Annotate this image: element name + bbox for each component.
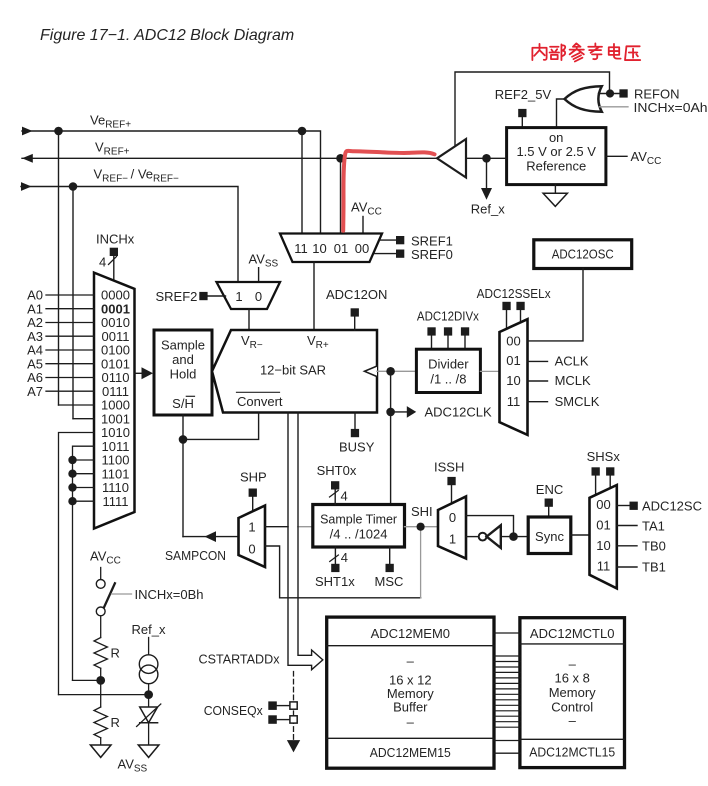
svg-text:0: 0 (449, 510, 456, 525)
wire A6 (46, 377, 94, 379)
svg-text:Sample Timer: Sample Timer (320, 511, 398, 526)
svg-text:1011: 1011 (102, 439, 130, 454)
svg-text:/4 .. /1024: /4 .. /1024 (330, 526, 388, 541)
wire SSELx stubs (507, 310, 521, 329)
diode cathode bar (140, 722, 158, 724)
svg-text:01: 01 (506, 353, 520, 368)
wire Ref_x to current source (148, 638, 150, 655)
svg-text:SREF0: SREF0 (411, 247, 453, 262)
svg-text:1111: 1111 (102, 494, 128, 509)
divider line ADC12MCTL15 (520, 738, 625, 740)
wire SAMPCON horizontal (183, 536, 239, 538)
node SHI (417, 523, 425, 531)
svg-text:12−bit SAR: 12−bit SAR (260, 363, 326, 378)
wire temp sensor to row 1010 (59, 433, 95, 695)
wire ENC stub (548, 507, 550, 517)
wire ADC12ON to SAR (354, 317, 356, 330)
wire ADC12CLK vertical to sample timer (390, 371, 392, 504)
wire INCHx bus to input mux (113, 256, 115, 281)
mux input channel select (94, 273, 135, 529)
switch contact top (96, 580, 105, 589)
svg-text:Buffer: Buffer (393, 699, 428, 714)
block 16x8 memory control (520, 618, 625, 768)
wire REFON input (599, 93, 620, 95)
svg-text:0: 0 (255, 289, 262, 304)
arrow VeREF+ input (22, 127, 33, 136)
svg-text:ADC12SSELx: ADC12SSELx (477, 286, 551, 301)
terminal square ADC12DIVx bit2 (461, 327, 469, 335)
svg-text:0: 0 (248, 542, 255, 557)
svg-text:ADC12MCTL15: ADC12MCTL15 (529, 745, 615, 760)
svg-text:INCHx: INCHx (96, 231, 135, 246)
wire SREF0 (375, 253, 397, 255)
bus slash SHT1x 4 (330, 555, 339, 562)
wire ISSH input 1 to inverter (466, 536, 479, 538)
svg-text:01: 01 (334, 241, 348, 256)
wire mem-mctl link row15b (494, 752, 520, 754)
wire MCLK input (528, 380, 548, 382)
wire switch to resistor R upper (100, 616, 102, 638)
wire row 1111 (73, 500, 95, 502)
resistor R upper (94, 638, 107, 669)
svg-text:ADC12CLK: ADC12CLK (425, 405, 493, 420)
arrow VREF- input (21, 182, 32, 191)
svg-text:ADC12MEM15: ADC12MEM15 (370, 745, 451, 760)
svg-text:10: 10 (312, 241, 326, 256)
mux SREF2 (217, 282, 281, 309)
wire SHT0x stub (334, 490, 336, 505)
svg-text:16 x 8: 16 x 8 (554, 670, 589, 685)
svg-text:4: 4 (99, 255, 106, 270)
terminal square SHSx bit0 (592, 467, 600, 475)
red annotation text 内部参考电压 (532, 43, 640, 61)
svg-text:SHP: SHP (240, 469, 267, 484)
wire SMCLK input (528, 401, 548, 403)
svg-text:ACLK: ACLK (555, 353, 589, 368)
terminal square ADC12ON (351, 308, 359, 316)
wire ACLK input (528, 360, 548, 362)
terminal square ADC12DIVx bit1 (444, 327, 452, 335)
svg-text:ENC: ENC (536, 482, 563, 497)
block Sample and Hold (154, 330, 212, 415)
inverter bubble (479, 533, 487, 541)
svg-text:11: 11 (294, 241, 308, 256)
inverter U4 (487, 525, 501, 548)
wire SREF1 (379, 239, 396, 241)
wire TB0 input (617, 545, 637, 547)
terminal square SHSx bit1 (606, 467, 614, 475)
terminal square REFON (619, 89, 627, 97)
current source circle lower (139, 665, 158, 684)
wire ADC12CLK output (391, 411, 407, 413)
wire Ref_x down (486, 158, 488, 188)
arrow dashed pointer (287, 740, 300, 752)
node SAMPCON branch (179, 435, 188, 444)
svg-text:SAMPCON: SAMPCON (165, 548, 226, 563)
terminal square ISSH (447, 477, 455, 485)
svg-text:MSC: MSC (375, 574, 404, 589)
svg-text:TB1: TB1 (642, 559, 666, 574)
wire A2 (46, 322, 94, 324)
wire SHT1x stub (334, 547, 336, 564)
svg-text:Sample: Sample (161, 338, 205, 353)
svg-text:1.5 V or 2.5 V: 1.5 V or 2.5 V (516, 144, 596, 159)
overbar on H of S/H (186, 395, 194, 397)
wire MSC stub (389, 547, 391, 564)
diode temp sensor (140, 707, 158, 723)
wire VeREF+ to row 1000 (59, 404, 95, 406)
node temp sensor (144, 690, 153, 699)
svg-text:R: R (111, 646, 120, 661)
node divider mid (96, 676, 105, 685)
block 16x12 memory buffer (327, 617, 494, 768)
svg-text:–: – (569, 713, 577, 728)
node row 1111 (68, 497, 76, 505)
svg-text:/1 .. /8: /1 .. /8 (430, 371, 466, 386)
wire divider node to row 1011 (73, 446, 95, 680)
node VREF-/x73 (69, 182, 78, 191)
block ADC12OSC (534, 240, 632, 269)
node row 1110 (68, 483, 76, 491)
svg-text:A5: A5 (27, 356, 43, 371)
wire current source to temp node (148, 684, 150, 707)
bus slash INCHx 4 (109, 257, 117, 265)
char 参 (570, 43, 584, 61)
svg-text:11: 11 (507, 394, 521, 409)
terminal square CONSEQx bit1 (268, 715, 277, 724)
divider line ADC12MEM0 (327, 645, 494, 647)
block 12-bit SAR (212, 330, 377, 413)
wire buffer enable from OR gate top (455, 72, 610, 146)
wire TB1 input (617, 566, 637, 568)
wire INCHx=0Ah input (grey) (600, 106, 629, 108)
svg-text:1: 1 (235, 289, 242, 304)
svg-text:A3: A3 (27, 329, 43, 344)
buffer amp U3 (points left) (437, 139, 466, 178)
svg-text:MCLK: MCLK (555, 373, 591, 388)
terminal square SHT0x (331, 481, 339, 489)
node VREF+/x340.5 (336, 154, 345, 163)
svg-text:Convert: Convert (237, 394, 283, 409)
mux SREF (VR+ source) (280, 234, 382, 263)
wire row 1110 (73, 487, 95, 489)
char 部 (550, 44, 566, 60)
block Divider /1../8 (416, 349, 480, 392)
svg-text:SHI: SHI (411, 504, 433, 519)
wire reference output to buffer input (466, 157, 507, 159)
svg-text:–: – (569, 657, 577, 672)
svg-text:S/H: S/H (172, 396, 194, 411)
svg-text:Divider: Divider (428, 356, 469, 371)
wire TA1 input (617, 525, 637, 527)
terminal square CONSEQx bit0 (268, 701, 277, 710)
svg-text:INCHx=0Ah: INCHx=0Ah (634, 100, 708, 115)
node sync output (509, 532, 518, 541)
char 压 (625, 46, 640, 60)
terminal square ADC12SSELx bit1 (516, 302, 524, 310)
svg-text:10: 10 (596, 538, 610, 553)
reference block U2: 1.5V or 2.5V Reference (507, 128, 606, 185)
svg-text:10: 10 (506, 373, 520, 388)
current source circle upper (139, 655, 158, 674)
svg-text:SREF2: SREF2 (156, 289, 198, 304)
bus slash SHT0x 4 (330, 491, 339, 498)
terminal square BUSY (351, 429, 359, 437)
block Sync (528, 517, 571, 554)
wire SHI down (grey) (420, 527, 422, 598)
svg-text:INCHx=0Bh: INCHx=0Bh (135, 587, 204, 602)
wire ADC12SC input (617, 505, 630, 507)
wire Convert to SAMPCON node (183, 413, 259, 440)
mux SHP (239, 506, 266, 568)
wire reference ground stub (554, 185, 556, 194)
wire OR output to reference block (557, 99, 566, 128)
wire 1011 net to divider mid (73, 679, 101, 681)
wire VREF- to row 1001 (73, 418, 94, 420)
wire VREF+ bus (22, 157, 437, 159)
wire mem-mctl link bus (494, 656, 520, 727)
svg-text:Reference: Reference (526, 159, 586, 174)
red annotation scribble over VREF+ wire (343, 151, 434, 231)
svg-text:01: 01 (596, 517, 610, 532)
arrow Ref_x (481, 188, 492, 200)
wire VREF+ to SREF mux 01 (340, 158, 342, 233)
terminal square SHP (249, 489, 257, 497)
wire CONSEQx bit1 (277, 719, 290, 721)
block Sample Timer (313, 505, 405, 548)
char 内 (532, 44, 546, 60)
terminal square INCHx (110, 248, 118, 256)
node row 1100 (68, 456, 76, 464)
arrow mux to S/H (142, 367, 154, 379)
wire BUSY stub (354, 413, 356, 429)
wire A1 (46, 308, 94, 310)
svg-text:on: on (549, 130, 563, 145)
ground (resistor divider) (90, 745, 111, 757)
mux ISSH (438, 497, 466, 559)
node REFON (606, 89, 614, 97)
wire ISSH stub (451, 485, 453, 504)
svg-text:0111: 0111 (102, 384, 129, 399)
wire REF2_5V to reference block (521, 117, 523, 127)
wire SREF mux output to VR+ (313, 262, 315, 330)
svg-text:ADC12ON: ADC12ON (326, 287, 387, 302)
svg-text:ADC12SC: ADC12SC (642, 499, 702, 514)
wire result bus with CSTARTADDx arrow (288, 413, 323, 670)
wire mem-mctl link row15a (494, 740, 520, 742)
wire A4 (46, 349, 94, 351)
svg-text:1001: 1001 (101, 411, 130, 426)
svg-text:ISSH: ISSH (434, 459, 464, 474)
svg-text:4: 4 (341, 489, 348, 504)
terminal square SREF0 (396, 250, 404, 258)
terminal square REF2_5V (518, 109, 526, 117)
svg-text:A7: A7 (27, 384, 43, 399)
svg-text:1: 1 (449, 531, 456, 546)
svg-text:A1: A1 (27, 301, 43, 316)
terminal square SREF2 (199, 292, 207, 300)
wire A5 (46, 363, 94, 365)
svg-text:ADC12OSC: ADC12OSC (552, 246, 614, 261)
wire VeREF+ bus (22, 131, 321, 405)
node VeREF+/x58.5 (54, 127, 63, 136)
terminal square SHT1x (331, 564, 339, 572)
svg-text:SHSx: SHSx (587, 449, 621, 464)
svg-text:0011: 0011 (102, 329, 130, 344)
wire A0 (46, 294, 94, 296)
wire SHP mux input 1 from timer (265, 526, 288, 528)
wire AVCC to SREF mux 00 (362, 217, 364, 234)
wire row 1100 (73, 459, 95, 461)
wire lever label lead (grey) (112, 593, 132, 595)
svg-text:Memory: Memory (549, 685, 596, 700)
svg-text:SMCLK: SMCLK (555, 394, 600, 409)
arrow VREF+ output (22, 154, 33, 163)
open square CONSEQx tap1 (290, 716, 297, 723)
wire mux output to S/H (135, 372, 142, 374)
wire CONSEQx bit0 (277, 705, 290, 707)
wire A7 (46, 390, 94, 392)
wire to ground left (100, 738, 102, 745)
char 电 (609, 44, 621, 59)
or-gate U1 (mirrored, output left) (565, 86, 602, 112)
svg-text:SHT0x: SHT0x (317, 463, 357, 478)
svg-text:00: 00 (355, 241, 369, 256)
svg-text:Sync: Sync (535, 529, 564, 544)
svg-text:Ref_x: Ref_x (471, 202, 505, 217)
svg-text:CONSEQx: CONSEQx (204, 703, 263, 718)
svg-text:1101: 1101 (102, 466, 130, 481)
svg-text:ADC12MEM0: ADC12MEM0 (371, 626, 450, 641)
svg-text:TA1: TA1 (642, 518, 665, 533)
wire SREF2 mux output to VR- (248, 309, 250, 330)
mux ADC12SSELx clock select (500, 319, 528, 435)
svg-text:Figure 17−1. ADC12 Block Diag: Figure 17−1. ADC12 Block Diagram (40, 27, 294, 44)
wire A3 (46, 335, 94, 337)
node VeREF+/x302 (298, 127, 307, 136)
wire SHI line (grey) (405, 526, 439, 528)
node ADC12CLK branch (386, 408, 395, 417)
open square CONSEQx tap0 (290, 702, 297, 709)
wire row 1101 (73, 473, 95, 475)
svg-text:1: 1 (248, 520, 255, 535)
terminal square SREF1 (396, 236, 404, 244)
svg-text:ADC12MCTL0: ADC12MCTL0 (530, 626, 615, 641)
node Ref_x (482, 154, 491, 163)
switch contact bottom (96, 607, 105, 616)
wire S/H to SAMPCON node (182, 415, 184, 537)
ground (reference) (543, 193, 567, 206)
wire timer output left (grey) (298, 526, 313, 528)
dashed pointer line (293, 672, 295, 740)
terminal square MSC (386, 564, 394, 572)
switch lever INCHx=0Bh (104, 583, 115, 607)
svg-text:00: 00 (506, 334, 520, 349)
wire SHP stub (252, 497, 254, 512)
arrow SAMPCON (points left) (205, 531, 217, 542)
svg-text:TB0: TB0 (642, 539, 666, 554)
node ADC12CLK top (386, 367, 395, 376)
divider line ADC12MEM15 (327, 737, 494, 739)
terminal square ENC (545, 499, 553, 507)
svg-text:11: 11 (597, 558, 611, 573)
arrow ADC12CLK (407, 406, 416, 418)
svg-text:0101: 0101 (101, 356, 130, 371)
wire ADC12OSC to mux input 00 (528, 269, 584, 341)
wire AVSS to SREF2 mux 0 (258, 268, 260, 282)
node row 1101 (68, 470, 76, 478)
wire ISSH input 0 loop (466, 516, 514, 537)
wire divider to SSEL mux (grey) (480, 370, 499, 372)
wire AVCC to switch (100, 568, 102, 580)
wire SHP mux input 0 from SHI (265, 546, 421, 598)
svg-text:0001: 0001 (101, 301, 130, 316)
resistor R lower (94, 707, 107, 738)
wire SHSx stubs (596, 476, 611, 496)
wire SHSx mux output to Sync (571, 534, 590, 536)
svg-text:4: 4 (341, 550, 348, 565)
wire reference AVCC supply (606, 155, 627, 157)
svg-text:and: and (172, 352, 194, 367)
terminal square ADC12SSELx bit0 (502, 302, 510, 310)
overbar on Convert (237, 391, 280, 393)
char 考 (588, 43, 602, 59)
svg-text:REF2_5V: REF2_5V (495, 87, 552, 102)
wire SAR clock to divider (grey) (377, 370, 416, 372)
wire diode to ground (148, 723, 150, 745)
clock notch on SAR right edge (365, 366, 378, 377)
svg-text:CSTARTADDx: CSTARTADDx (199, 652, 280, 667)
wire 1010 net to temp node (59, 694, 149, 696)
divider line ADC12MCTL0 (520, 643, 625, 645)
terminal square ADC12SC (630, 502, 638, 510)
svg-text:BUSY: BUSY (339, 440, 375, 455)
diode adjust slash (137, 704, 161, 727)
svg-text:R: R (111, 715, 120, 730)
svg-text:–: – (407, 654, 415, 669)
wire VREF-/VeREF- bus (21, 187, 238, 419)
svg-text:Hold: Hold (170, 367, 197, 382)
svg-text:–: – (407, 715, 415, 730)
svg-text:ADC12DIVx: ADC12DIVx (417, 309, 479, 324)
svg-text:00: 00 (596, 497, 610, 512)
svg-text:SHT1x: SHT1x (315, 574, 355, 589)
ground (temp diode) (138, 745, 159, 757)
wire SREF2 to mux (208, 295, 226, 297)
wire mem-mctl link row0 (494, 632, 520, 634)
wire inverter to sync node (501, 536, 528, 538)
wire resistor junction (100, 668, 102, 707)
wire DIVx stubs (432, 336, 466, 350)
svg-text:Ref_x: Ref_x (132, 622, 166, 637)
terminal square ADC12DIVx bit0 (427, 327, 435, 335)
mux SHSx trigger select (590, 485, 617, 588)
